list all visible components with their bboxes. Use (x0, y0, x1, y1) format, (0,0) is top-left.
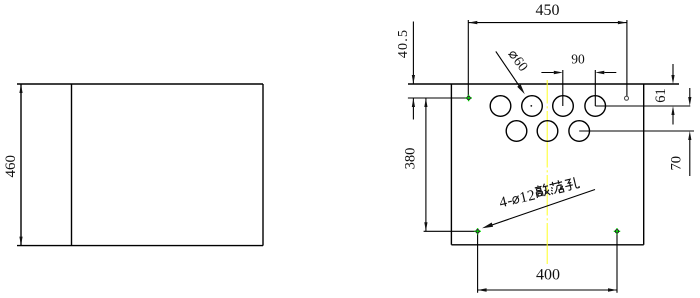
corner hole marker bottom-right (614, 228, 620, 234)
label 450 (536, 2, 560, 19)
row2 centerline extension right (579, 130, 694, 132)
svg-text:60: 60 (510, 54, 530, 74)
glyph kong (564, 177, 580, 191)
hole circle row1-1 (490, 96, 511, 117)
svg-text:90: 90 (571, 51, 585, 66)
svg-text:380: 380 (403, 148, 419, 170)
label 61 (653, 88, 669, 103)
dimension 460 line (19, 84, 22, 246)
hole circle row2-1 (506, 121, 527, 142)
hole circle row1-3 (553, 96, 574, 117)
top hole extension line (408, 97, 466, 99)
bottom hole extension line (424, 230, 475, 232)
svg-text:460: 460 (3, 155, 19, 178)
svg-text:450: 450 (536, 2, 560, 19)
svg-text:61: 61 (653, 88, 669, 103)
dimension 40.5 (412, 22, 415, 120)
knockout holes leader (482, 190, 595, 229)
glyph luo (549, 179, 565, 194)
dimension 90 (541, 70, 616, 106)
label 460 (3, 155, 19, 178)
label diameter-60 (505, 48, 530, 75)
corner hole marker top-left (465, 95, 471, 101)
dimension 380 (424, 98, 427, 231)
glyph qiao (534, 183, 550, 198)
hole circle row2-2 (537, 121, 558, 142)
dimension 61 (671, 64, 674, 125)
label 90 (571, 51, 585, 66)
svg-text:4-: 4- (498, 193, 515, 212)
left view outline (17, 84, 263, 246)
diameter 60 leader (496, 51, 525, 94)
corner hole marker bottom-left (474, 228, 480, 234)
label 380 (403, 148, 419, 170)
yellow centerline (546, 80, 548, 264)
svg-text:40.5: 40.5 (396, 29, 411, 58)
dimension 400 (478, 233, 617, 293)
panel left edge (450, 84, 452, 245)
hole circle row2-3 (569, 121, 590, 142)
panel right edge (643, 84, 645, 245)
svg-text:400: 400 (536, 266, 560, 283)
hole circle row1-4 (585, 96, 606, 117)
svg-text:12: 12 (518, 187, 537, 206)
row1 centerline extension right (595, 105, 690, 107)
label 4-d12 knockout holes (497, 176, 580, 212)
label 40.5 (396, 29, 411, 58)
label 400 (536, 266, 560, 283)
svg-text:70: 70 (669, 156, 685, 171)
left view inner edge line (71, 84, 73, 246)
corner hole marker top-right (625, 96, 629, 100)
dimension 70 (688, 88, 691, 176)
panel bottom edge (451, 244, 643, 246)
panel top edge (408, 83, 679, 85)
label 70 (669, 156, 685, 171)
dimension 450 (468, 20, 627, 96)
hole circle row1-2 (522, 96, 543, 117)
